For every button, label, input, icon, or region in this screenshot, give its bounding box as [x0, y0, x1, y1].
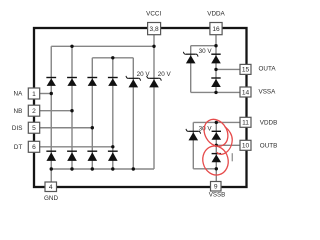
svg-text:16: 16: [212, 26, 220, 33]
wire VDDB main column: [215, 122, 217, 181]
junction gnd col2: [70, 167, 73, 170]
svg-text:4: 4: [49, 184, 53, 191]
pin 2 box: [28, 105, 39, 116]
svg-text:30 V: 30 V: [199, 126, 213, 133]
junction VSSB node: [215, 167, 218, 170]
svg-text:15: 15: [242, 67, 250, 74]
diode D2 upper col2: [67, 78, 77, 86]
label 20V zener1: [137, 71, 151, 78]
pin 10 box OUTB: [240, 140, 251, 150]
junction pin2 node: [70, 109, 73, 112]
IC outline box: [34, 28, 247, 187]
label 20V zener2: [158, 71, 172, 78]
pin 3,8 box VCCI: [148, 23, 161, 35]
pin 16 box VDDA: [210, 23, 222, 35]
pin 9 box VSSB: [211, 182, 222, 192]
label 30V VDDA: [199, 48, 213, 55]
wire column 1: [50, 46, 52, 169]
label VSSB: [209, 192, 226, 199]
wire VDDA stub: [215, 35, 217, 46]
label VSSA: [259, 89, 277, 96]
wire pin5: [40, 127, 93, 129]
svg-text:30 V: 30 V: [199, 48, 213, 55]
wire pin2: [40, 110, 72, 112]
svg-text:OUTA: OUTA: [259, 66, 277, 73]
junction gnd zener1: [132, 167, 135, 170]
svg-text:NA: NA: [14, 91, 24, 98]
wire zener column B: [192, 122, 194, 168]
svg-text:VDDB: VDDB: [260, 119, 278, 126]
junction gnd col1: [50, 167, 53, 170]
svg-text:6: 6: [32, 144, 36, 151]
pin 1 box: [28, 88, 39, 99]
wire OUTA: [216, 68, 240, 70]
svg-text:9: 9: [214, 184, 218, 191]
label NB: [14, 108, 23, 115]
zener Z3 30V VDDA: [183, 52, 198, 64]
wire VSSA: [191, 91, 240, 93]
wire OUTB: [216, 144, 240, 146]
wire column 4: [112, 58, 114, 169]
svg-text:10: 10: [242, 143, 250, 150]
zener Z2 20V: [147, 76, 162, 88]
svg-text:DT: DT: [14, 144, 23, 151]
svg-text:VCCI: VCCI: [146, 11, 161, 18]
diode D5 lower col1: [46, 151, 56, 161]
svg-text:2: 2: [32, 108, 36, 115]
svg-text:GND: GND: [44, 195, 58, 202]
junction pin5 node: [91, 126, 94, 129]
junction pin1 node: [50, 92, 53, 95]
wire column zener2 VCCI: [153, 46, 155, 169]
label DT: [14, 144, 23, 151]
red annotation circle around diode DD: [200, 143, 232, 178]
svg-text:14: 14: [242, 89, 250, 96]
svg-text:VSSA: VSSA: [259, 89, 277, 96]
label OUTA: [259, 66, 277, 73]
junction OUTA node: [214, 68, 217, 71]
diode D8 lower col4: [108, 151, 118, 161]
pin 6 box: [28, 141, 39, 152]
wire VDDA main column: [215, 46, 217, 93]
wire VCCI stub: [153, 35, 155, 47]
svg-text:11: 11: [242, 120, 249, 127]
diode DB OUTA-VSSA: [211, 78, 221, 87]
red annotation circle around diode DC: [199, 115, 232, 151]
label VDDB: [260, 119, 278, 126]
label GND: [44, 195, 58, 202]
wire column 2: [71, 46, 73, 169]
wire pin1: [40, 93, 52, 95]
pin 11 box VDDB: [240, 117, 251, 127]
svg-text:20 V: 20 V: [158, 71, 172, 78]
junction VSSA node: [214, 91, 217, 94]
junction gnd col4: [111, 167, 114, 170]
stray gray tick mark: [231, 153, 233, 161]
junction rail1 col2: [70, 45, 73, 48]
junction VDDB node: [215, 121, 218, 124]
red annotation tail stroke: [217, 127, 232, 155]
svg-text:VDDA: VDDA: [207, 11, 225, 18]
wire column 3: [91, 58, 93, 169]
svg-text:3,8: 3,8: [150, 26, 159, 33]
wire VDDB branch: [193, 121, 240, 123]
diode D1 upper col1: [46, 78, 56, 86]
pin 14 box VSSA: [240, 87, 251, 97]
pin 5 box: [28, 122, 39, 133]
pin 15 box OUTA: [240, 64, 251, 74]
wire zener column A: [190, 46, 192, 93]
pin 4 box GND: [45, 182, 57, 192]
diode DC VDDB-OUTB: [212, 131, 222, 140]
junction rail1 VCCI: [152, 45, 155, 48]
diode DA VDDA-OUTA: [211, 54, 221, 63]
wire VDDA branch: [191, 45, 216, 47]
label VCCI: [146, 11, 161, 18]
diode DD OUTB-VSSB: [212, 154, 222, 163]
wire rail2 DIS/DT clamp: [92, 57, 133, 59]
label VDDA: [207, 11, 225, 18]
wire GND rail: [51, 168, 154, 170]
label 30V VDDB: [199, 126, 213, 133]
label DIS: [12, 125, 23, 132]
svg-text:5: 5: [32, 125, 36, 132]
wire rail1 VCCI: [51, 45, 154, 47]
label OUTB: [260, 143, 278, 150]
zener Z4 30V VDDB: [186, 129, 201, 141]
diode D3 upper col3: [87, 78, 97, 86]
svg-text:DIS: DIS: [12, 125, 23, 132]
wire GND stub: [50, 169, 52, 182]
zener Z1 20V: [126, 76, 141, 88]
junction pin6 node: [111, 145, 114, 148]
svg-text:20 V: 20 V: [137, 71, 151, 78]
svg-text:NB: NB: [14, 108, 23, 115]
junction gnd col3: [91, 167, 94, 170]
wire VSSB row: [193, 168, 216, 170]
diode D6 lower col2: [67, 151, 77, 161]
wire pin6: [40, 146, 113, 148]
svg-text:OUTB: OUTB: [260, 143, 278, 150]
junction VDDA branch: [214, 44, 217, 47]
svg-text:1: 1: [32, 91, 36, 98]
junction OUTB node: [215, 144, 218, 147]
label NA: [14, 91, 24, 98]
diode D7 lower col3: [87, 151, 97, 161]
svg-text:VSSB: VSSB: [209, 192, 226, 199]
junction rail2 col4: [111, 56, 114, 59]
wire column zener1: [132, 58, 134, 169]
diode D4 upper col4: [108, 78, 118, 86]
